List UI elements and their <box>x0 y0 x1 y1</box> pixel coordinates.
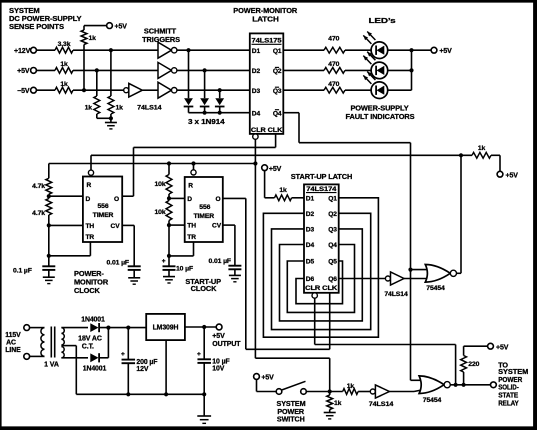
ground (sense dividers) <box>110 118 112 122</box>
svg-text:Q6: Q6 <box>328 276 337 283</box>
ground (switch pulldown) <box>329 410 331 413</box>
feedback wire Q5 to D6 <box>296 261 343 304</box>
wire inverter output to schmitt trigger 3 <box>142 89 157 91</box>
svg-text:D4: D4 <box>306 242 315 249</box>
svg-text:200 µF: 200 µF <box>136 359 157 366</box>
wire LM309H output <box>185 326 216 328</box>
node 10k junction to D <box>167 196 171 200</box>
node 75454#1 output on bus <box>459 153 463 157</box>
diode CR3 1N914 <box>219 90 221 98</box>
svg-text:0.1 µF: 0.1 µF <box>13 268 32 275</box>
svg-text:D4: D4 <box>252 110 261 117</box>
svg-text:220: 220 <box>468 361 479 368</box>
node switch output junction <box>328 389 332 393</box>
resistor 1k pull-up (-5V sense) <box>81 30 87 45</box>
svg-text:AC: AC <box>6 339 16 346</box>
resistor 4.7k upper <box>46 178 52 194</box>
wire lower diode to rail <box>99 357 108 359</box>
wire U1 CLR down to reset bus <box>254 139 256 163</box>
wire schmitt 1 output to D1 <box>177 49 250 51</box>
node 4.7k junction to D <box>47 194 51 198</box>
node divider ground junction <box>109 116 113 120</box>
wire Q3 to 470 resistor <box>283 89 324 91</box>
node CLR feedback on output <box>454 383 458 387</box>
node -5V pull-up junction <box>82 88 86 92</box>
feedback wire Q4 to D5 <box>287 245 354 313</box>
svg-text:470: 470 <box>328 36 339 43</box>
wire +5V to switch <box>256 379 258 391</box>
svg-text:TIMER: TIMER <box>93 212 114 219</box>
wire schmitt 3 output to D3 <box>177 89 250 91</box>
svg-text:1k: 1k <box>89 35 97 42</box>
terminal 115V AC line lower <box>24 354 30 360</box>
diode 1N4001 lower <box>90 353 98 362</box>
capacitor 0.1uF <box>42 265 55 267</box>
wire 1k pull-up down to -5V node <box>83 45 85 91</box>
wire LED2 to +5V rail <box>388 69 412 71</box>
svg-text:10 µF: 10 µF <box>212 358 229 365</box>
svg-text:+: + <box>121 351 125 358</box>
svg-text:TRIGGERS: TRIGGERS <box>142 35 180 44</box>
resistor 470 (row 1) <box>324 47 345 53</box>
node LED rail row2 <box>409 68 413 72</box>
svg-text:+: + <box>197 351 201 358</box>
wire inverter to 75454#1 input <box>404 278 428 280</box>
wire diode cathodes to D4 <box>188 107 190 113</box>
wire 1k to D1 <box>292 197 304 199</box>
node ground rail corner <box>202 392 206 396</box>
capacitor 200uF <box>127 328 129 360</box>
svg-text:O: O <box>114 196 119 203</box>
node timing cap junction 556#1 <box>47 254 51 258</box>
node 220 pull-up on output <box>462 383 466 387</box>
wire to TH pin 556#2 <box>169 224 185 226</box>
svg-text:TH: TH <box>187 223 196 230</box>
svg-text:0.01 µF: 0.01 µF <box>107 259 130 266</box>
ground rail <box>76 393 204 395</box>
terminal +5V (switch) <box>254 374 260 380</box>
svg-text:D1: D1 <box>252 48 261 55</box>
terminal +5V (start-up latch D1) <box>262 165 268 171</box>
wire switch to 1k <box>306 391 342 393</box>
schmitt trigger 1 <box>158 42 172 58</box>
svg-text:+5V: +5V <box>439 48 452 55</box>
wire CV pin 556#1 to 0.01uF <box>122 224 134 226</box>
wire LED1 to +5V rail <box>388 49 432 51</box>
node rectifier join <box>106 326 110 330</box>
node diode 3 tap on D3 line <box>218 88 222 92</box>
svg-text:1k: 1k <box>60 81 68 88</box>
wire 1k to +5V terminal <box>491 154 500 156</box>
svg-text:−5V: −5V <box>17 88 30 95</box>
diode CR1 1N914 <box>188 50 190 98</box>
svg-text:3.3k: 3.3k <box>58 41 71 48</box>
wire 470 to LED1 <box>345 49 372 51</box>
svg-text:Q1: Q1 <box>328 195 337 202</box>
terminal +5V (LED rail) <box>431 47 437 53</box>
svg-text:1N4001: 1N4001 <box>83 366 107 373</box>
svg-text:Q2: Q2 <box>273 68 282 75</box>
svg-text:START-UP LATCH: START-UP LATCH <box>291 172 352 181</box>
wire LED3 to +5V rail <box>388 89 412 91</box>
node +12V divider junction <box>109 48 113 52</box>
svg-text:1k: 1k <box>85 105 93 112</box>
svg-text:OUTPUT: OUTPUT <box>212 341 241 348</box>
svg-text:+5V: +5V <box>269 166 282 173</box>
node diode 3 cathode junction <box>218 111 222 115</box>
capacitor 0.01uF (556#2) <box>228 265 241 267</box>
svg-text:+5V: +5V <box>261 375 274 382</box>
svg-text:RELAY: RELAY <box>498 398 519 407</box>
svg-text:+5V: +5V <box>212 333 225 340</box>
resistor 1k series (switch) <box>343 389 358 395</box>
LED 2 <box>371 62 388 79</box>
node diode 1 tap on D1 line <box>186 48 190 52</box>
wire divider bottoms join <box>96 114 98 118</box>
diode 1N4001 upper <box>90 323 98 332</box>
capacitor 0.01uF (556#1) <box>128 265 141 267</box>
wire inverter to 75454#2 input <box>389 391 414 393</box>
resistor 470 (row 3) <box>324 87 345 93</box>
wire TR pin 556#1 to timing cap <box>89 242 91 256</box>
IC U4 556 timer start-up clock <box>185 177 223 242</box>
wire rectified rail <box>99 327 146 329</box>
wire Q2 to 470 resistor <box>283 69 324 71</box>
node LM309H ground <box>164 392 168 396</box>
svg-text:D6: D6 <box>306 276 315 283</box>
svg-text:Q4: Q4 <box>328 242 337 249</box>
wire clock bus 556#1 output to U1 CLK <box>134 146 276 148</box>
resistor 10k upper <box>166 175 172 195</box>
svg-text:1k: 1k <box>116 105 124 112</box>
wire +12V row to schmitt trigger 1 input <box>73 49 158 51</box>
svg-text:FAULT INDICATORS: FAULT INDICATORS <box>345 112 414 121</box>
terminal +5V (75454 pull-up) <box>497 171 503 177</box>
wire TH node down to timing cap <box>48 225 50 266</box>
wire 220 to +5V <box>463 346 465 355</box>
resistor 4.7k lower <box>48 196 50 198</box>
svg-text:Q1: Q1 <box>273 48 282 55</box>
node reset bus to 556#2 R <box>191 161 195 165</box>
resistor 220 pull-up <box>463 372 465 385</box>
schmitt trigger 2 <box>158 62 172 78</box>
inverter U2a 74LS14 (-5V sense) <box>124 88 129 93</box>
wire center tap to ground rail <box>61 345 76 347</box>
svg-text:74LS174: 74LS174 <box>306 186 336 193</box>
svg-text:+5V: +5V <box>496 344 509 351</box>
resistor 470 (row 2) <box>324 68 345 74</box>
wire O pin 556#1 to clock bus <box>122 195 133 197</box>
svg-text:CLOCK: CLOCK <box>74 286 101 295</box>
pin R bubble of 556#1 <box>88 170 93 175</box>
svg-text:75454: 75454 <box>423 397 442 404</box>
diode CR2 1N914 <box>204 70 206 98</box>
svg-text:D: D <box>187 196 192 203</box>
svg-text:75454: 75454 <box>426 285 445 292</box>
svg-text:74LS14: 74LS14 <box>384 291 408 298</box>
svg-text:4.7k: 4.7k <box>32 183 45 190</box>
svg-text:556: 556 <box>97 203 108 210</box>
schmitt trigger 3 <box>158 82 172 98</box>
svg-text:1N4001: 1N4001 <box>81 316 105 323</box>
svg-text:R: R <box>188 183 193 190</box>
svg-text:+5V: +5V <box>17 68 30 75</box>
wire to D pin 556#1 <box>49 195 83 197</box>
resistor 1k (75454 pull-up) <box>472 152 491 158</box>
gate U8 75454 #2 <box>419 376 444 394</box>
wire Q1 to 470 resistor <box>283 49 324 51</box>
svg-text:LM309H: LM309H <box>153 324 179 331</box>
svg-text:D1: D1 <box>306 195 315 202</box>
pin R bubble of 556#2 <box>193 164 195 170</box>
wire +5V to 1k <box>36 69 55 71</box>
svg-text:CLR CLK: CLR CLK <box>305 285 337 292</box>
wire Q4-bar line down to 75454#2 <box>410 270 412 381</box>
IC U7 LM309H regulator <box>146 314 185 340</box>
svg-text:Q3: Q3 <box>273 88 282 95</box>
svg-text:TH: TH <box>86 223 95 230</box>
svg-text:D2: D2 <box>252 68 261 75</box>
svg-text:SENSE POINTS: SENSE POINTS <box>9 22 64 31</box>
svg-text:556: 556 <box>199 204 210 211</box>
wire +5V row to schmitt trigger 2 input <box>73 69 158 71</box>
svg-text:1k: 1k <box>334 400 342 407</box>
svg-text:CV: CV <box>212 223 222 230</box>
svg-text:+5V: +5V <box>506 172 519 179</box>
svg-text:74LS175: 74LS175 <box>252 37 282 44</box>
svg-text:TR: TR <box>86 234 95 241</box>
svg-text:4.7k: 4.7k <box>32 210 45 217</box>
IC U3 556 timer power-monitor clock <box>83 177 122 243</box>
svg-text:Q2: Q2 <box>328 211 337 218</box>
wire reset bus corner to 4.7k chain <box>48 164 50 179</box>
svg-text:1k: 1k <box>60 61 68 68</box>
wire reset bus to 10k chain <box>168 164 170 175</box>
svg-text:1k: 1k <box>279 187 287 194</box>
pin CLR bubble of U1 <box>253 134 258 139</box>
terminal 115V AC line upper <box>24 325 30 331</box>
feedback wire Q1 to D2 <box>263 198 378 337</box>
svg-text:D: D <box>86 196 91 203</box>
transformer T1 primary <box>30 327 45 329</box>
svg-text:O: O <box>215 196 220 203</box>
resistor 1k (+5V sense) <box>55 68 73 74</box>
svg-text:+12V: +12V <box>14 48 31 55</box>
inverter U2c 74LS14 (switch) <box>370 389 375 394</box>
svg-text:CLR CLK: CLR CLK <box>251 127 283 134</box>
svg-text:1k: 1k <box>478 145 486 152</box>
wire 75454#2 output to relay terminal <box>450 384 490 386</box>
svg-text:115V: 115V <box>5 332 21 339</box>
svg-text:LED’s: LED’s <box>369 16 396 25</box>
transformer T1 core <box>50 327 52 358</box>
LED 1 <box>371 42 388 59</box>
svg-text:D2: D2 <box>306 211 315 218</box>
node +5V divider junction <box>95 68 99 72</box>
resistor 10k lower <box>168 198 170 200</box>
ground (power supply) <box>197 415 211 417</box>
svg-text:R: R <box>87 182 92 189</box>
terminal +5V output <box>216 324 222 330</box>
svg-text:TIMER: TIMER <box>193 213 214 220</box>
svg-text:+5V: +5V <box>115 23 128 30</box>
capacitor 10uF polarized <box>163 265 176 267</box>
svg-text:D3: D3 <box>306 227 315 234</box>
svg-text:1 VA: 1 VA <box>44 362 59 369</box>
svg-text:74LS14: 74LS14 <box>137 105 162 112</box>
wire bus down to 556#1 R bubble <box>90 155 92 170</box>
node diode 2 tap on D2 line <box>203 68 207 72</box>
feedback wire Q3 to D4 <box>280 229 363 321</box>
wire schmitt 2 output to D2 <box>177 69 250 71</box>
svg-text:12V: 12V <box>136 366 148 373</box>
svg-text:10k: 10k <box>154 181 165 188</box>
svg-text:Q3: Q3 <box>328 227 337 234</box>
wire Q6 to inverter U2b <box>339 278 386 280</box>
node 200uF tap <box>126 326 130 330</box>
svg-text:1k: 1k <box>347 383 355 390</box>
svg-text:470: 470 <box>328 61 339 68</box>
svg-text:10k: 10k <box>154 209 165 216</box>
resistor 1k (D1 pull-up) <box>275 195 292 201</box>
resistor 1k divider (+12V sense) vertical <box>110 50 112 96</box>
wire TH node down to 10uF <box>168 225 170 266</box>
wire Q4-bar to 75454#1 upper input <box>411 269 429 271</box>
svg-text:Q4: Q4 <box>273 110 282 117</box>
svg-text:LATCH: LATCH <box>252 14 279 23</box>
feedback wire Q2 to D3 <box>272 213 371 329</box>
resistor 1k pulldown (switch) <box>329 392 331 396</box>
IC U1 74LS175 power-monitor latch <box>250 33 283 133</box>
svg-text:0.01 µF: 0.01 µF <box>209 258 232 265</box>
ground (10uF) <box>168 270 170 277</box>
wire LM309H ground pin <box>165 340 167 394</box>
wire CV pin 556#2 to 0.01uF <box>223 224 235 226</box>
svg-text:Q5: Q5 <box>328 259 337 266</box>
svg-text:10 µF: 10 µF <box>176 265 193 272</box>
wire 1k to inverter U2c <box>358 391 370 393</box>
terminal output to solid-state relay <box>491 382 497 388</box>
wire U5 CLR to relay output node <box>314 298 316 344</box>
wire 75454#1 output bus to 556#1 reset <box>91 154 472 156</box>
resistor 1k (-5V sense) <box>55 87 73 93</box>
ground (0.1uF) <box>48 270 50 277</box>
wire ground rail to earth <box>203 394 205 416</box>
ground (0.01uF 556#2) <box>234 269 236 275</box>
svg-text:CLOCK: CLOCK <box>191 284 218 293</box>
node 10uF tap <box>202 325 206 329</box>
svg-text:TR: TR <box>187 234 196 241</box>
svg-text:SWITCH: SWITCH <box>277 415 305 424</box>
pin CLK riser of U1 <box>275 134 277 148</box>
svg-text:470: 470 <box>328 81 339 88</box>
svg-text:D5: D5 <box>306 259 315 266</box>
wire -5V row to inverter input <box>73 89 124 91</box>
wire Q4-bar route to 75454 gates <box>283 112 299 114</box>
svg-text:+: + <box>162 258 166 265</box>
capacitor 10uF output <box>203 327 205 359</box>
transformer T1 secondary upper <box>61 327 88 329</box>
wire O pin 556#2 to start-up latch CLK <box>223 197 246 199</box>
svg-text:3 x 1N914: 3 x 1N914 <box>188 119 225 126</box>
svg-text:LINE: LINE <box>5 347 21 354</box>
wire -5V to 1k <box>36 89 55 91</box>
node 4.7k junction to TH <box>48 215 50 225</box>
svg-text:C.T.: C.T. <box>82 344 94 351</box>
svg-text:10V: 10V <box>212 365 224 372</box>
node timing cap junction 556#2 <box>167 254 171 258</box>
svg-text:74LS14: 74LS14 <box>369 401 394 408</box>
wire 75454#1 output riser to reset bus <box>457 272 462 274</box>
node 200uF ground <box>126 392 130 396</box>
terminal +5V pull-up (top) <box>107 23 113 29</box>
wire 470 to LED2 <box>345 69 372 71</box>
gate U6 75454 #1 <box>425 265 450 283</box>
wire TR pin 556#2 to timing cap <box>193 242 195 256</box>
node LED rail row1 <box>409 48 413 52</box>
switch S1 system power <box>276 389 282 395</box>
terminal +5V (220 pull-up) <box>488 343 494 349</box>
transformer T1 secondary lower <box>61 347 64 358</box>
node 10k junction to TH <box>168 221 170 226</box>
svg-text:CV: CV <box>111 223 121 230</box>
svg-text:18V AC: 18V AC <box>78 336 102 343</box>
reset bus (CLR) horizontal <box>49 163 256 165</box>
inverter U2b 74LS14 (Q6) <box>385 276 390 281</box>
node reset bus junction CLR <box>253 161 257 165</box>
node diode 2 cathode junction <box>203 111 207 115</box>
wire +12V to 3.3k <box>36 49 55 51</box>
wire 470 to LED3 <box>345 89 372 91</box>
IC U5 74LS174 start-up latch <box>304 184 339 292</box>
wire reset bus drop from CLR junction <box>254 164 256 359</box>
pin CLR bubble of U5 <box>312 293 317 298</box>
ground (0.01uF 556#1) <box>133 270 135 278</box>
wire LED +5V rail vertical <box>411 50 413 90</box>
wire to D pin 556#2 <box>168 194 170 198</box>
wire to TH pin 556#1 <box>49 224 83 226</box>
wire +5V terminal to 1k pull-up <box>84 25 107 27</box>
svg-text:D3: D3 <box>252 88 261 95</box>
resistor 3.3k <box>55 47 73 53</box>
resistor 1k divider (+5V sense) vertical <box>96 70 98 96</box>
node reset bus to 10k chain <box>167 161 171 165</box>
LED 3 <box>371 82 388 99</box>
wire +5V to 1k D1 <box>264 171 266 198</box>
node Q4-bar line to 75454#1 input <box>408 268 412 272</box>
